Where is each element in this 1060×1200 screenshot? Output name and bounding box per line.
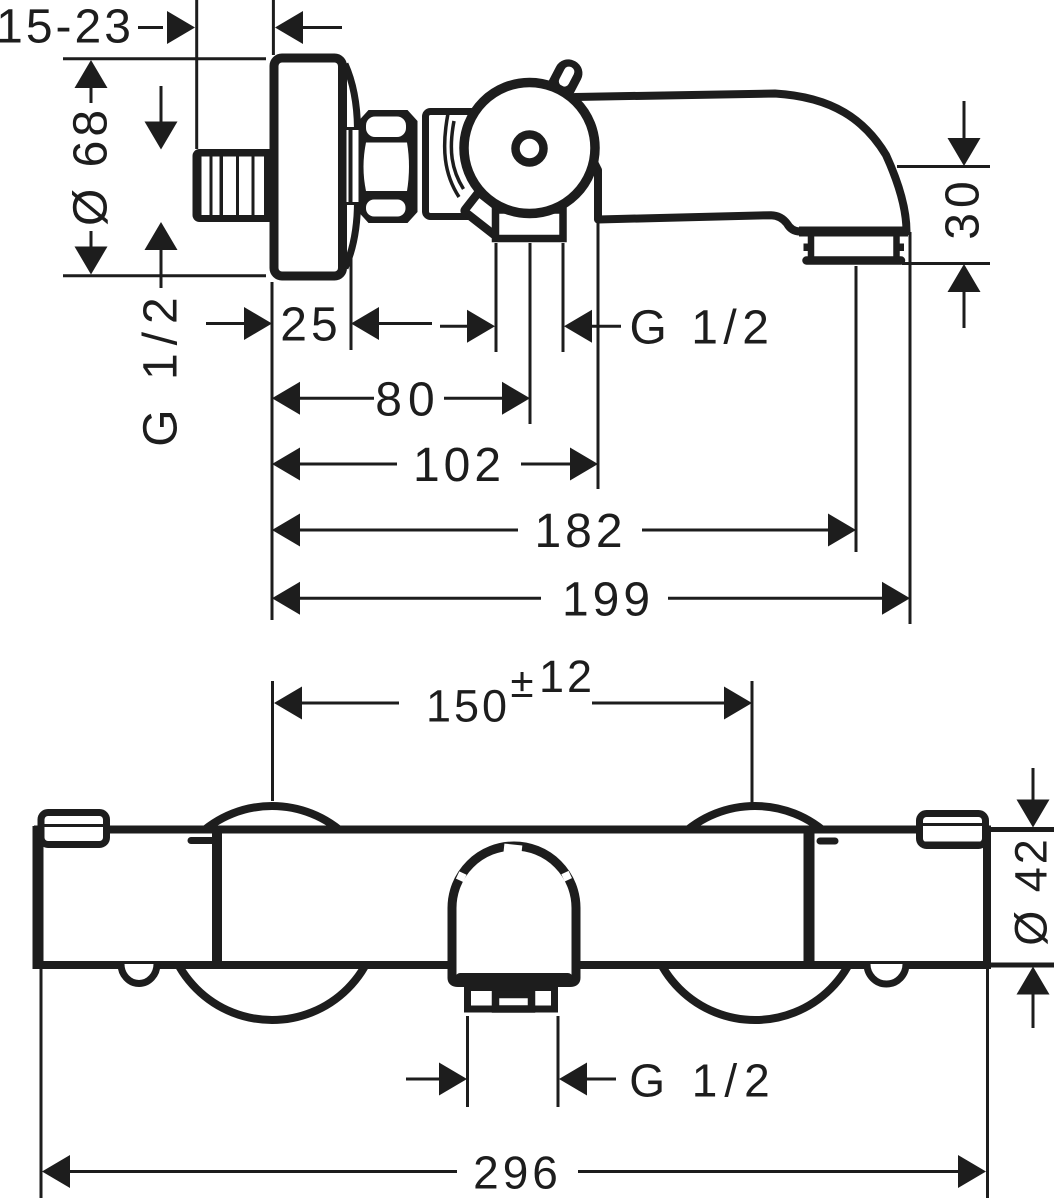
svg-text:15-23: 15-23: [0, 1, 134, 54]
dimension 30: [897, 101, 990, 328]
dimension G 1/2 wall connection: [135, 86, 188, 447]
dimension Ø68: [63, 59, 266, 276]
centre dome: [452, 844, 576, 983]
cap joint left: [212, 829, 222, 965]
threaded wall nipple: [193, 149, 277, 222]
svg-text:Ø 68: Ø 68: [65, 106, 118, 226]
dimension 102: [272, 221, 598, 492]
dimension 296: [41, 968, 988, 1199]
svg-text:30: 30: [937, 176, 990, 239]
svg-text:Ø 42: Ø 42: [1006, 836, 1057, 946]
svg-text:25: 25: [280, 299, 341, 352]
dimension 25: [206, 253, 432, 352]
svg-text:G 1/2: G 1/2: [630, 302, 775, 355]
svg-text:182: 182: [534, 505, 626, 558]
adapter flange: [426, 112, 488, 217]
left end tab: [41, 813, 107, 845]
svg-text:G 1/2: G 1/2: [135, 289, 188, 446]
dimension G 1/2 shower outlet: [440, 243, 774, 355]
extension line: pipe end: [195, 0, 198, 149]
thermostat bar body: [38, 830, 987, 966]
shower outlet block: [496, 210, 564, 239]
hose connection stub: [464, 192, 510, 236]
svg-text:150: 150: [426, 681, 510, 732]
bottom outlet block: [468, 988, 555, 1010]
left under bump: [121, 964, 157, 984]
handle lever pin: [534, 55, 587, 123]
cap joint right: [804, 829, 815, 965]
svg-text:102: 102: [413, 439, 505, 492]
dimension 80: [272, 243, 530, 427]
svg-text:80: 80: [375, 374, 440, 427]
detail dash right: [820, 838, 835, 845]
dimension Ø42: [989, 768, 1057, 1028]
right wall escutcheon: [648, 806, 862, 1020]
right under bump: [867, 964, 906, 984]
dimension 199: [272, 232, 910, 626]
handle hub: [516, 135, 544, 163]
extension line: wall face (chain): [271, 282, 274, 620]
svg-text:12: 12: [539, 651, 595, 702]
dimension 150±12: [273, 651, 753, 804]
extension line: plate back: [272, 0, 275, 55]
wall escutcheon plate: [274, 58, 359, 276]
outlet nub: [496, 995, 532, 1010]
svg-text:G 1/2: G 1/2: [629, 1055, 777, 1107]
handle knob: [464, 83, 595, 214]
spout: [572, 94, 908, 261]
detail dash left: [191, 837, 213, 844]
svg-text:±: ±: [510, 659, 533, 706]
svg-text:199: 199: [562, 573, 654, 626]
dimension G 1/2 bottom outlet: [406, 1016, 777, 1107]
right end tab: [920, 814, 986, 846]
left wall escutcheon: [165, 806, 379, 1020]
union nut: [359, 110, 418, 223]
dimension 15-23: [0, 1, 342, 54]
svg-text:296: 296: [473, 1147, 562, 1199]
dimension 182: [272, 266, 856, 558]
